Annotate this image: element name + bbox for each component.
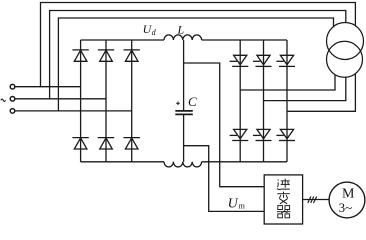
- label 3~: [339, 200, 353, 215]
- diode D2: [98, 50, 114, 61]
- wire phase1 top line: [41, 3, 356, 87]
- wire inverter bridge column 2: [263, 40, 265, 162]
- label L: [177, 23, 185, 37]
- wire rectifier column 2: [105, 40, 107, 162]
- terminal b: [10, 97, 15, 102]
- wire phase2 top line: [50, 11, 346, 99]
- label nibianqi char ni: [277, 179, 290, 190]
- diode D3: [124, 50, 140, 61]
- terminal c: [10, 109, 15, 114]
- wire phase3 to bridge: [15, 110, 132, 112]
- wire cap tap lower to inverter: [184, 146, 265, 212]
- svg-text:C: C: [188, 94, 197, 109]
- label Um: [228, 197, 246, 212]
- diode D1: [72, 50, 88, 61]
- label nibianqi char bian: [277, 192, 290, 204]
- label ac tilde: [1, 99, 6, 101]
- wire top dc rail: [81, 39, 287, 41]
- label nibianqi char qi: [277, 206, 290, 218]
- wire phase1 to bridge: [15, 86, 81, 88]
- svg-text:m: m: [239, 202, 246, 211]
- transformer T winding 2: [327, 41, 363, 77]
- wire rectifier column 1: [80, 40, 82, 162]
- wire phase2 to bridge: [15, 98, 106, 100]
- inductor lower: [164, 162, 202, 167]
- label plus: [176, 102, 180, 106]
- wire bottom dc rail: [81, 161, 287, 163]
- capacitor branch lower wire: [183, 115, 185, 162]
- wire inverter phase row A: [240, 75, 335, 90]
- wire inverter to motor shaft: [303, 199, 329, 201]
- inductor L: [164, 35, 202, 40]
- wire cap tap upper to inverter: [184, 63, 265, 187]
- terminal a: [10, 84, 15, 89]
- wire phase3 top line: [58, 18, 333, 111]
- label C: [188, 94, 197, 109]
- wire inverter phase row C: [287, 74, 355, 112]
- inverter box: [264, 175, 302, 224]
- transformer T winding 1: [327, 23, 364, 60]
- thyristor V2: [253, 55, 272, 66]
- label M: [342, 186, 355, 201]
- thyristor V3: [276, 55, 295, 66]
- diode D5: [98, 138, 114, 149]
- label Ud: [143, 22, 157, 37]
- wire inverter bridge column 1: [239, 40, 241, 162]
- capacitor branch upper wire: [183, 40, 185, 110]
- svg-text:U: U: [228, 197, 239, 212]
- wire inverter bridge column 3: [286, 40, 288, 162]
- diode D4: [72, 138, 88, 149]
- svg-text:L: L: [177, 23, 185, 37]
- svg-text:3~: 3~: [339, 200, 353, 215]
- thyristor V1: [230, 55, 249, 66]
- capacitor C: [175, 111, 193, 115]
- wire inverter phase row B: [264, 77, 346, 100]
- thyristor V6: [276, 129, 295, 140]
- thyristor V4: [230, 129, 249, 140]
- diode D6: [124, 138, 140, 149]
- shaft slash marks: [308, 197, 317, 204]
- wire rectifier column 3: [131, 40, 133, 162]
- motor M: [329, 182, 365, 218]
- thyristor V5: [253, 129, 272, 140]
